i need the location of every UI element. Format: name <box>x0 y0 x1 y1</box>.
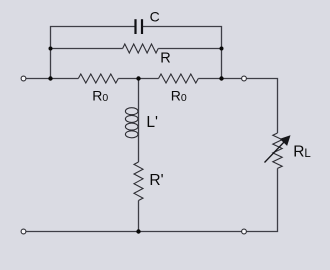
wire middle branch lower <box>138 201 140 232</box>
terminal output top <box>242 76 247 81</box>
svg-text:R: R <box>160 51 170 67</box>
node: right main junction <box>219 76 223 80</box>
resistor R <box>123 44 159 53</box>
terminal input bottom <box>21 229 26 234</box>
wire middle branch through coil <box>138 108 140 162</box>
resistor R0 left <box>78 74 118 83</box>
wire between R0 resistors <box>118 78 158 80</box>
node: left main junction <box>48 76 52 80</box>
wire bottom right of terminal <box>139 231 242 233</box>
open terminals <box>21 76 246 234</box>
wire bottom left of junction <box>26 231 139 233</box>
node: top-left of R branch <box>49 47 53 51</box>
arrow of variable resistor RL <box>265 136 290 162</box>
wire middle branch upper <box>138 79 140 109</box>
node: middle branch bottom <box>136 229 140 233</box>
inductor L' coil loops <box>125 108 138 138</box>
resistor R' <box>134 162 143 201</box>
wire main left <box>26 78 79 80</box>
svg-text:C: C <box>150 8 160 24</box>
node: middle branch top <box>136 76 140 80</box>
wire top capacitor branch left <box>51 27 136 79</box>
wire R branch right <box>158 48 221 50</box>
capacitor C <box>136 19 143 34</box>
wire R branch left <box>51 48 123 50</box>
wire terminal to right branch corner <box>246 79 277 134</box>
terminal output bottom <box>242 229 247 234</box>
wire right branch lower <box>246 168 277 231</box>
wire main right to terminal <box>198 78 241 80</box>
node: right of R branch <box>220 47 224 51</box>
svg-text:L': L' <box>146 114 158 131</box>
wire top capacitor branch right <box>142 27 222 79</box>
resistor R0 right <box>159 74 199 83</box>
svg-text:R': R' <box>149 172 163 189</box>
terminal input top <box>21 76 26 81</box>
resistor RL (variable) <box>273 133 282 168</box>
